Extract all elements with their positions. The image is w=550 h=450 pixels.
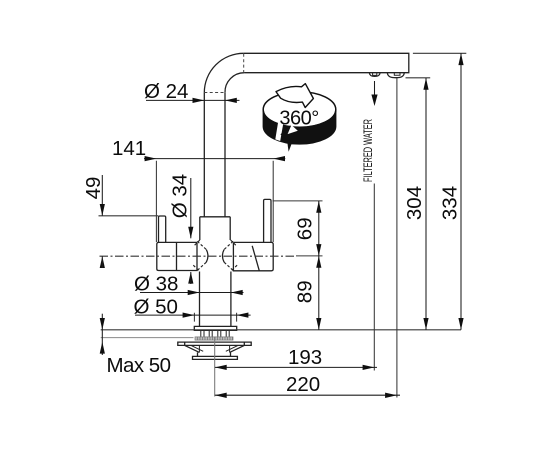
svg-text:49: 49: [82, 177, 105, 200]
svg-text:141: 141: [112, 137, 146, 160]
svg-text:Ø 34: Ø 34: [169, 174, 192, 218]
svg-text:220: 220: [286, 373, 320, 396]
svg-text:FILTERED WATER: FILTERED WATER: [363, 119, 376, 182]
svg-text:69: 69: [294, 217, 317, 240]
svg-text:Ø 38: Ø 38: [134, 273, 178, 296]
svg-text:Ø 50: Ø 50: [134, 295, 178, 318]
svg-text:Ø 24: Ø 24: [144, 80, 188, 103]
svg-text:334: 334: [439, 186, 462, 220]
svg-text:304: 304: [403, 186, 426, 220]
svg-text:360°: 360°: [279, 108, 318, 130]
svg-text:Max 50: Max 50: [107, 354, 171, 377]
svg-text:89: 89: [294, 280, 317, 303]
svg-text:193: 193: [288, 346, 322, 369]
